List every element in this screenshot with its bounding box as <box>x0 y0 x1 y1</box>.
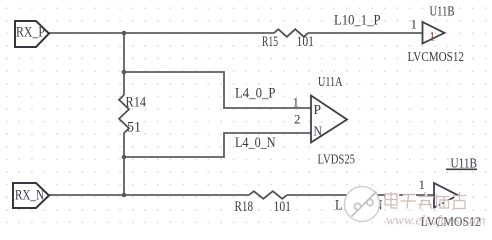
svg-text:P: P <box>314 102 322 117</box>
svg-text:RX_P: RX_P <box>16 25 45 41</box>
svg-text:L4_0_N: L4_0_N <box>235 135 276 151</box>
svg-text:101: 101 <box>274 199 292 215</box>
svg-text:U11B: U11B <box>430 4 455 19</box>
svg-text:51: 51 <box>127 120 141 136</box>
svg-text:101: 101 <box>297 34 315 50</box>
svg-text:R14: R14 <box>126 95 147 111</box>
svg-text:1: 1 <box>429 30 435 44</box>
svg-text:N: N <box>314 124 323 139</box>
svg-text:U11A: U11A <box>318 74 343 89</box>
svg-text:2: 2 <box>294 112 301 127</box>
svg-text:L4_0_P: L4_0_P <box>235 86 276 102</box>
svg-text:1: 1 <box>411 17 418 32</box>
svg-text:L10_1_P: L10_1_P <box>334 13 381 29</box>
svg-text:R18: R18 <box>235 199 254 215</box>
svg-text:RX_N: RX_N <box>15 188 44 204</box>
svg-text:1: 1 <box>293 95 300 110</box>
svg-text:1: 1 <box>419 177 426 192</box>
svg-text:R15: R15 <box>262 34 278 50</box>
svg-text:LVDS25: LVDS25 <box>318 152 356 167</box>
svg-text:LVCMOS12: LVCMOS12 <box>421 214 482 229</box>
svg-text:U11B: U11B <box>451 156 478 171</box>
svg-text:LVCMOS12: LVCMOS12 <box>408 49 465 64</box>
